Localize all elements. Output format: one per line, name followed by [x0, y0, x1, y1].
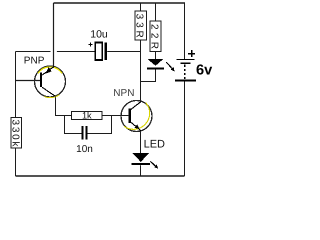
- wire rail to battery: [184, 3, 186, 59]
- svg-text:1k: 1k: [82, 111, 92, 121]
- wire battery to bottom rail: [184, 81, 186, 176]
- wire 330k bottom to rail: [15, 148, 17, 176]
- wire bottom rail: [16, 175, 185, 177]
- capacitor C 10u electrolytic: [88, 29, 108, 60]
- wire 10n right branch: [88, 116, 112, 134]
- wire 22R to LED1: [155, 52, 157, 60]
- svg-text:10u: 10u: [90, 29, 108, 41]
- transistor Q1 PNP: [24, 55, 66, 97]
- wire 10u right to 33R column: [107, 51, 140, 53]
- svg-text:PNP: PNP: [24, 55, 45, 66]
- wire PNP base lead: [16, 80, 41, 82]
- svg-text:22R: 22R: [148, 24, 159, 49]
- battery B1 6v: [175, 50, 213, 81]
- resistor 33R: [133, 11, 146, 40]
- svg-text:330k: 330k: [9, 120, 20, 148]
- svg-text:NPN: NPN: [113, 88, 134, 99]
- capacitor C 10n: [76, 126, 93, 155]
- resistor 22R: [148, 21, 161, 52]
- wire top rail: [54, 2, 186, 4]
- wire LED1 to join 33R column: [141, 69, 156, 81]
- svg-text:33R: 33R: [133, 14, 144, 38]
- svg-text:6v: 6v: [196, 63, 213, 79]
- wire PNP collector down to 1k node: [56, 96, 72, 115]
- wire rail to 33R: [140, 3, 142, 11]
- wire LED2 to bottom rail: [140, 165, 142, 176]
- wire 10u left segment right of hop: [57, 51, 95, 53]
- wire PNP emitter to rail: [53, 3, 55, 67]
- wire 33R to NPN collector: [140, 40, 142, 101]
- LED D1 top (with 22R): [147, 59, 175, 72]
- wire 10u left to base node (with hop gap over emitter wire): [16, 51, 51, 53]
- wire left column 10u/base/330k: [15, 52, 17, 118]
- LED D2 bottom flashing: [131, 138, 165, 168]
- transistor Q2 NPN: [113, 88, 152, 132]
- svg-text:LED: LED: [144, 138, 165, 150]
- svg-text:10n: 10n: [76, 144, 93, 155]
- resistor 330k: [9, 118, 21, 149]
- wire rail to 22R: [155, 3, 157, 21]
- wire NPN emitter to LED2: [140, 131, 142, 153]
- wire 1k to NPN base: [102, 115, 128, 117]
- resistor 1k: [72, 111, 103, 121]
- wire 10n left branch: [65, 116, 82, 134]
